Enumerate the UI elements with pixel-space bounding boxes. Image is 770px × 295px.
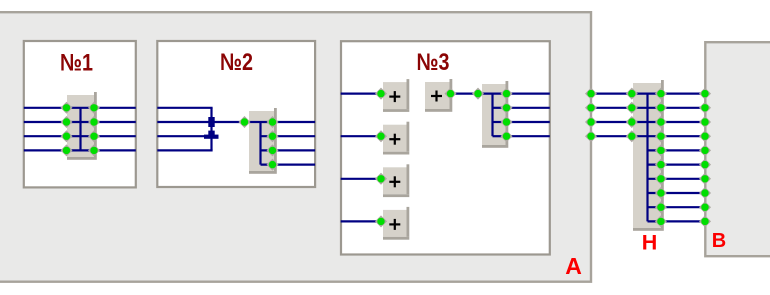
port A.4: [585, 130, 597, 142]
wire H to B row4: [648, 149, 706, 151]
pin X1.4: [60, 144, 72, 156]
svg-text:В: В: [712, 230, 726, 252]
pin P5 out: [444, 88, 456, 100]
plus-block P5 sign: [431, 91, 442, 102]
wire N1 row4: [24, 149, 136, 151]
port A.1: [585, 88, 597, 100]
pin X1.7: [88, 130, 100, 142]
plus-block P4 sign: [389, 219, 400, 230]
pin X3.2: [500, 102, 512, 114]
pin P4: [375, 215, 387, 227]
wire H to B row1: [632, 107, 705, 109]
wire N1 row3: [24, 135, 136, 137]
pin H.R1: [655, 88, 667, 100]
pin H.R10: [655, 215, 667, 227]
wire N1 row1: [24, 107, 136, 109]
pin X1.6: [88, 116, 100, 128]
wire N2 in1: [157, 107, 212, 109]
wire H to B row2: [632, 121, 705, 123]
bus X2 vertical: [259, 122, 261, 165]
pin H.R3: [655, 116, 667, 128]
connector H body: [633, 80, 664, 231]
pin X1.1: [60, 102, 72, 114]
pin X2.1: [266, 116, 278, 128]
pin H.R5: [655, 144, 667, 156]
wire N2 in3: [157, 135, 212, 137]
wire N2 out4: [261, 164, 316, 166]
svg-text:№1: №1: [60, 50, 93, 77]
wire H to B row5: [648, 164, 706, 166]
port A.2: [585, 102, 597, 114]
pin H.R9: [655, 201, 667, 213]
plus-block P1 sign: [389, 91, 400, 102]
junction arrow J1: [208, 117, 214, 127]
port B.9: [699, 201, 711, 213]
pin X3.4: [500, 130, 512, 142]
wire X3 row0: [478, 92, 507, 94]
connector X1 body: [67, 92, 97, 160]
wire N2 out2: [261, 135, 316, 137]
wire N3 out4: [507, 135, 550, 137]
module B outline: [705, 42, 770, 256]
pin H.L4: [626, 130, 638, 142]
port A.3: [585, 116, 597, 128]
pin X1.5: [88, 102, 100, 114]
plus-block P2 sign: [389, 134, 400, 145]
block N1 frame: [24, 41, 136, 187]
wire N2 out1: [261, 121, 316, 123]
wire H to B row0: [632, 92, 705, 94]
port B.7: [699, 173, 711, 185]
port B.6: [699, 159, 711, 171]
bus X1 vertical: [79, 108, 81, 151]
plus-block P4 body: [383, 207, 409, 240]
pin X2.2: [266, 130, 278, 142]
wire P5 to X3: [451, 92, 493, 94]
wire A to H row2: [591, 121, 633, 123]
svg-text:№3: №3: [417, 49, 450, 76]
svg-text:А: А: [565, 253, 582, 279]
plus-block P3 body: [383, 164, 409, 197]
pin X2.3: [266, 144, 278, 156]
wire N3 in4: [341, 220, 381, 222]
bus H vertical: [646, 94, 648, 222]
wire A to H row3: [591, 135, 633, 137]
wire N2 out3: [261, 149, 316, 151]
wire H to B row8: [648, 206, 706, 208]
wire N2 in2: [157, 121, 212, 123]
port B.10: [699, 215, 711, 227]
wire N3 out1: [507, 92, 550, 94]
wire A to H row1: [591, 107, 633, 109]
plus-block P5 body: [425, 79, 452, 112]
pin X2.4: [266, 159, 278, 171]
node N2 input: [238, 116, 250, 128]
connector X3 body: [482, 81, 508, 148]
wire H to B row6: [648, 178, 706, 180]
svg-text:№2: №2: [220, 49, 253, 76]
pin X1.2: [60, 116, 72, 128]
port B.1: [699, 88, 711, 100]
plus-block P2 body: [383, 122, 409, 155]
pin X3.3: [500, 116, 512, 128]
bus N2 merge vertical: [210, 108, 212, 151]
block N2 frame: [157, 41, 315, 187]
bus X3 vertical: [491, 94, 493, 137]
wire N3 in1: [341, 92, 381, 94]
pin H.L3: [626, 116, 638, 128]
port B.8: [699, 187, 711, 199]
pin X1.8: [88, 144, 100, 156]
pin H.R2: [655, 102, 667, 114]
wire N3 in3: [341, 178, 381, 180]
svg-text:Н: Н: [642, 231, 658, 255]
wire N1 row2: [24, 121, 136, 123]
pin X1.3: [60, 130, 72, 142]
wire N2 link: [212, 121, 250, 123]
pin P1: [375, 88, 387, 100]
connector X2 body: [249, 108, 277, 174]
pin H.L1: [626, 88, 638, 100]
module A outline: [0, 12, 591, 282]
plus-block P3 sign: [389, 176, 400, 187]
wire X3 stub2: [493, 121, 507, 123]
wire H to B row3: [632, 135, 705, 137]
wire N2 in4: [157, 149, 212, 151]
pin H.R4: [655, 130, 667, 142]
port B.3: [699, 116, 711, 128]
wire X3 stub3: [493, 135, 507, 137]
pin H.L2: [626, 102, 638, 114]
block N3 frame: [341, 41, 550, 254]
node N3 junction: [472, 88, 484, 100]
pin X3.1: [500, 88, 512, 100]
port B.2: [699, 102, 711, 114]
pin H.R8: [655, 187, 667, 199]
wire X3 stub1: [493, 107, 507, 109]
pin H.R6: [655, 159, 667, 171]
pin P2: [375, 130, 387, 142]
port B.5: [699, 144, 711, 156]
wire N3 out2: [507, 107, 550, 109]
junction arrow J2: [204, 131, 219, 139]
wire A to H row0: [591, 92, 633, 94]
pin H.R7: [655, 173, 667, 185]
plus-block P1 body: [383, 79, 409, 112]
wire N3 in2: [341, 135, 381, 137]
port B.4: [699, 130, 711, 142]
wire N3 out3: [507, 121, 550, 123]
wire X2 in: [246, 121, 261, 123]
wire H to B row9: [648, 220, 706, 222]
pin P3: [375, 173, 387, 185]
wire H to B row7: [648, 192, 706, 194]
